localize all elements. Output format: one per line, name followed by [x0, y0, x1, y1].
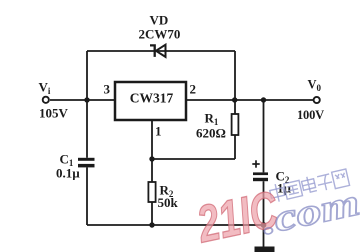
diode VD zener symbol	[150, 45, 166, 57]
svg-text:100V: 100V	[297, 108, 324, 122]
svg-text:0.1µ: 0.1µ	[56, 166, 80, 181]
node adjust junction	[149, 156, 154, 161]
node input junction	[84, 97, 89, 102]
node C2 branch junction	[261, 97, 266, 102]
svg-text:50k: 50k	[158, 195, 179, 210]
terminal Vo	[314, 97, 320, 103]
svg-text:1: 1	[155, 124, 162, 139]
capacitor C2	[253, 100, 268, 247]
wire right vertical from top rail	[234, 51, 236, 100]
watermark chinese characters	[269, 168, 350, 203]
wire pin1 vertical	[151, 120, 153, 182]
wire input segment	[50, 99, 115, 101]
wire adjust segment	[152, 158, 235, 160]
node R2 bottom junction	[149, 222, 154, 227]
watermark 21IC.com	[192, 164, 360, 252]
resistor R1	[232, 100, 239, 159]
wire left vertical	[86, 51, 88, 158]
wire bottom rail	[87, 224, 264, 226]
svg-text:VD: VD	[150, 13, 169, 28]
resistor R2	[148, 182, 155, 225]
ground	[255, 247, 275, 252]
svg-text:620Ω: 620Ω	[196, 126, 226, 141]
svg-text:105V: 105V	[39, 106, 69, 121]
terminal Vi	[43, 97, 49, 103]
svg-text:CW317: CW317	[130, 91, 174, 106]
svg-text:.com: .com	[258, 181, 360, 243]
op-amp/regulator U1 CW317 box	[115, 82, 186, 120]
node C2 bottom junction	[261, 222, 267, 228]
capacitor C1	[78, 158, 95, 225]
svg-text:V0: V0	[308, 78, 322, 94]
svg-text:Vi: Vi	[39, 80, 51, 97]
svg-text:2CW70: 2CW70	[139, 27, 181, 42]
node R1 top junction	[232, 97, 237, 102]
C2 plus polarity mark	[252, 160, 259, 167]
wire top rail	[87, 50, 235, 52]
svg-text:2: 2	[190, 82, 197, 97]
svg-text:3: 3	[104, 82, 111, 97]
wire output segment	[186, 99, 313, 101]
